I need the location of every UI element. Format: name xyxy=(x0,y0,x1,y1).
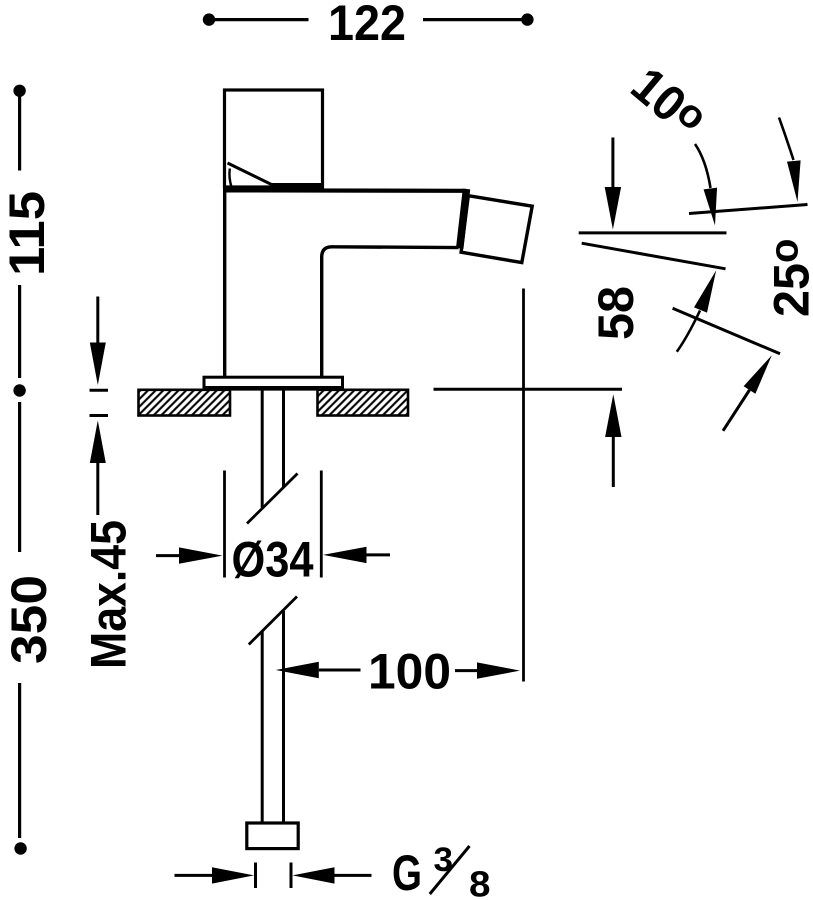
svg-text:Max.45: Max.45 xyxy=(81,520,137,669)
angle 10 arc arrowhead xyxy=(704,188,718,226)
faucet handle xyxy=(225,90,323,187)
svg-text:o: o xyxy=(763,239,807,263)
svg-text:122: 122 xyxy=(328,0,406,51)
Max.45 down arrowhead xyxy=(90,343,106,386)
valve seat black bar xyxy=(271,183,323,193)
svg-text:115: 115 xyxy=(0,191,55,276)
svg-text:100: 100 xyxy=(368,644,451,700)
dimension 122 right line xyxy=(423,18,523,21)
dimension 100 left arrowhead xyxy=(276,662,319,678)
body right edge and spout underside xyxy=(322,247,459,377)
Max.45 upper tick xyxy=(90,389,109,392)
dimension 122 left dot xyxy=(203,13,215,25)
dimension 122 right dot xyxy=(521,13,533,25)
pipe break slash 2 xyxy=(249,597,297,645)
Max.45 lower tick xyxy=(90,414,109,417)
G3/8 left extension tick xyxy=(254,863,257,889)
dimension 100 right stem xyxy=(455,669,478,672)
svg-text:G: G xyxy=(392,845,422,900)
spout end thick joint xyxy=(460,189,467,248)
top right leader stem xyxy=(779,118,794,161)
dimension D34 left arrow stem xyxy=(156,554,181,557)
handle lever diagonal xyxy=(228,163,274,186)
angle 25 arc arrowhead xyxy=(694,270,716,312)
Max.45 up arrowhead xyxy=(90,421,106,464)
shared dot 115/350 xyxy=(13,384,25,396)
base plate bottom edge xyxy=(204,386,343,391)
dimension 58 up arrow stem xyxy=(612,437,615,487)
Max.45 up arrow stem xyxy=(96,463,99,515)
aerator tilted square xyxy=(461,196,532,263)
body top line xyxy=(225,188,467,193)
G3/8 right arrowhead xyxy=(293,867,335,883)
dimension 58 down arrowhead xyxy=(605,187,621,230)
dimension D34 right extension line xyxy=(320,471,323,578)
pipe break slash 1 xyxy=(247,474,298,524)
spray axis tilted line xyxy=(582,243,726,269)
dimension 58 up arrowhead xyxy=(605,394,621,437)
body left edge xyxy=(223,188,226,377)
supply pipe lower left wall xyxy=(261,632,264,824)
countertop hatched section left xyxy=(139,390,231,416)
dimension 350 upper line xyxy=(18,402,21,552)
supply pipe upper right wall xyxy=(282,389,285,488)
svg-text:8: 8 xyxy=(469,864,491,900)
dimension D34 left extension line xyxy=(223,471,226,578)
dimension D34 right arrow stem xyxy=(367,553,391,556)
thread label fraction slash xyxy=(430,846,470,894)
dimension D34 left arrowhead xyxy=(179,547,223,563)
base plate xyxy=(204,377,343,388)
aerator centre extension line xyxy=(522,289,525,682)
angle 25 arc leader xyxy=(677,311,700,352)
dimension 350 lower line xyxy=(18,683,21,838)
dimension 115 lower line xyxy=(18,285,21,378)
dimension D34 right arrowhead xyxy=(323,547,367,563)
svg-text:25: 25 xyxy=(764,263,813,317)
top right leader arrowhead xyxy=(787,160,801,202)
svg-text:350: 350 xyxy=(1,575,57,664)
pipe end connector xyxy=(247,823,298,849)
dimension 58 down arrow stem xyxy=(611,138,614,189)
dimension 100 left stem xyxy=(319,669,361,672)
spray lower tilted line xyxy=(673,308,780,354)
dimension 350 bottom dot xyxy=(14,842,26,854)
dimension 115 upper line xyxy=(18,96,21,171)
lever underside curve xyxy=(229,169,231,189)
supply pipe upper left wall xyxy=(261,389,264,508)
G3/8 left arrowhead xyxy=(212,867,254,883)
svg-text:3: 3 xyxy=(434,841,454,879)
aerator face extension line xyxy=(689,205,808,214)
dimension 100 right arrowhead xyxy=(477,662,520,678)
countertop hatched section right xyxy=(318,390,409,416)
G3/8 left arrow stem xyxy=(175,874,214,877)
spout level reference line xyxy=(579,231,727,234)
supply pipe lower right wall xyxy=(282,611,285,823)
G3/8 right extension tick xyxy=(290,863,293,889)
svg-text:Ø34: Ø34 xyxy=(232,532,314,588)
dimension 115 top dot xyxy=(13,85,25,97)
angle 10 arc leader xyxy=(695,144,711,188)
dimension 122 left line xyxy=(213,18,309,21)
Max.45 down arrow stem xyxy=(96,297,99,346)
lower leader stem xyxy=(723,390,750,431)
G3/8 right arrow stem xyxy=(335,874,372,877)
countertop level line right xyxy=(434,388,623,391)
lower leader arrowhead xyxy=(744,355,772,394)
svg-text:58: 58 xyxy=(588,286,644,340)
